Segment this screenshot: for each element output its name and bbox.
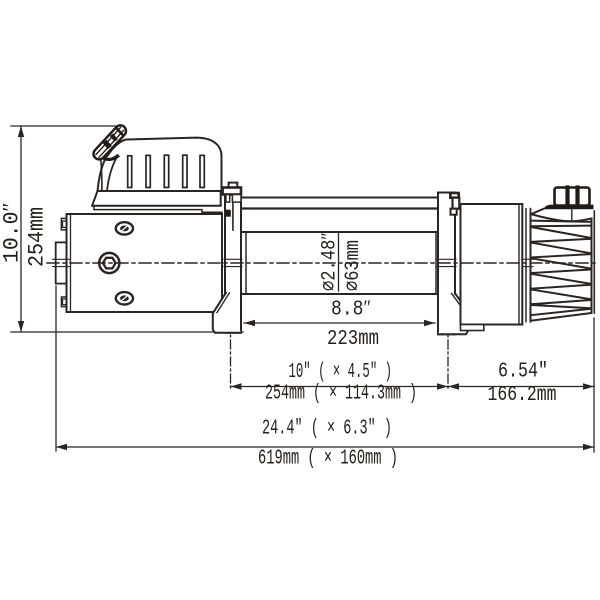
svg-text:223mm: 223mm: [327, 328, 379, 351]
centre hex bolt: [99, 253, 119, 273]
cover screw top: [116, 222, 133, 234]
knob rib 2: [575, 188, 579, 206]
cooling fin slot 4: [183, 155, 187, 187]
cooling fin slot 1: [128, 156, 132, 188]
arrowhead: 6.54in dim right: [583, 383, 594, 389]
dimension line: overall length 24.4in/619mm: [56, 446, 594, 448]
cone rib pattern: [531, 221, 592, 316]
knob rib 1: [565, 188, 569, 206]
dimension line: overall height 10.0in/254mm (left vertical): [20, 127, 22, 331]
base plate right of foot: [461, 325, 484, 331]
drum barrel left end step: [245, 232, 247, 294]
arrowhead: 6.54in dim left: [448, 383, 459, 389]
svg-text:10" ( × 4.5" ): 10" ( × 4.5" ): [289, 361, 393, 384]
gearbox end ring inner line: [525, 209, 527, 322]
dimension line: bolt pattern 10in/254mm and 6.54in/166.2mm: [231, 386, 595, 388]
left mounting foot: [213, 293, 241, 333]
svg-text:10.0″: 10.0″: [0, 203, 25, 264]
right drum flange: [438, 193, 455, 335]
svg-text:166.2mm: 166.2mm: [488, 384, 557, 407]
svg-text:⌀2.48″: ⌀2.48″: [318, 233, 342, 292]
clamp bolt shaft line: [232, 202, 234, 230]
bolt tab top-left of motor: [61, 218, 67, 230]
svg-text:⌀63mm: ⌀63mm: [342, 240, 365, 291]
extension line: top of winch (lever tip): [11, 125, 123, 127]
centreline tick marks on right flange: [437, 258, 456, 260]
leader line: drum diameter labels: [338, 233, 340, 291]
gearbox end ring outer line: [530, 209, 532, 322]
left foot inner slant: [217, 293, 230, 313]
gearbox cylinder inner edge: [518, 204, 520, 325]
extension line: overall length, left (motor end cap): [55, 286, 57, 451]
cooling fin slot 5: [200, 155, 204, 187]
lever pivot boot: [102, 154, 120, 161]
centreline tick marks on end cap: [53, 258, 71, 260]
motor housing body: [67, 214, 223, 312]
motor end flange line: [70, 214, 72, 312]
cooling fin slot 2: [146, 155, 150, 187]
cooling fin slot 3: [164, 155, 168, 187]
lever neck front line: [101, 159, 102, 192]
tie bar top edge: [241, 197, 438, 199]
cover screw bottom: [116, 292, 133, 304]
shoulder vertical line: [571, 209, 573, 222]
clutch lever handle: [91, 123, 128, 162]
centreline tick marks on end ring: [524, 258, 534, 260]
right clamp body: [453, 198, 460, 209]
gearbox cylinder: [461, 204, 523, 325]
clutch knob base platform: [544, 205, 594, 210]
arrowhead: drum dim left: [244, 320, 255, 326]
tapered brake cone outline: [531, 214, 592, 321]
clamp dark block: [226, 210, 231, 217]
arrowhead: 10in dim left: [231, 383, 242, 389]
dimension line: drum length 8.8in/223mm: [244, 322, 435, 324]
arrowhead: drum dim right: [424, 320, 435, 326]
arrowhead: overall length right: [583, 444, 594, 450]
base plate lower step: [94, 206, 222, 213]
extension line: bottom of winch (foot base): [11, 331, 243, 333]
drum barrel bottom edge: [241, 293, 438, 295]
extension line: right flange centre (dash-dot): [447, 306, 449, 391]
clamp mid square: [232, 195, 241, 203]
right foot inner slant: [452, 293, 465, 311]
extension line: left flange centre (dash-dot): [230, 306, 232, 391]
arrowhead: height dim bottom: [18, 321, 24, 332]
right flange clamp frame: [450, 193, 458, 198]
housing shoulder slope: [531, 209, 544, 215]
clutch base plate: [92, 191, 221, 206]
right mounting foot: [438, 293, 468, 334]
drum barrel right end step: [435, 232, 437, 294]
free-spool clutch knob: [555, 188, 590, 206]
left flange rope clamp tab: [223, 188, 241, 195]
right clamp lower box: [451, 209, 457, 215]
extension line: overall length, right (gear housing cap): [593, 318, 595, 452]
svg-text:24.4" ( × 6.3" ): 24.4" ( × 6.3" ): [262, 418, 392, 441]
arrowhead: height dim top: [18, 126, 24, 137]
bolt tab bottom-left of motor: [61, 297, 67, 307]
tie bar bottom edge: [241, 207, 438, 209]
clamp left block: [226, 195, 230, 203]
arrowhead: 10in dim right: [437, 383, 448, 389]
svg-text:254mm: 254mm: [25, 207, 50, 267]
svg-text:6.54": 6.54": [498, 361, 548, 384]
clutch housing dome: [98, 138, 222, 191]
output end cap edge: [593, 211, 595, 313]
centreline tick marks on left flange: [224, 258, 242, 260]
left flange top nub: [229, 183, 238, 188]
motor end cap: [56, 242, 67, 283]
svg-text:619mm ( × 160mm ): 619mm ( × 160mm ): [258, 448, 398, 471]
lever neck rear line: [107, 158, 117, 191]
main horizontal centreline (dash-dot): [47, 262, 598, 264]
svg-text:254mm ( × 114.3mm ): 254mm ( × 114.3mm ): [265, 383, 417, 406]
svg-text:8.8″: 8.8″: [331, 296, 371, 322]
drum barrel top edge: [241, 231, 438, 233]
left drum flange: [225, 189, 241, 333]
cone right edge: [591, 219, 593, 314]
arrowhead: overall length left: [56, 444, 67, 450]
